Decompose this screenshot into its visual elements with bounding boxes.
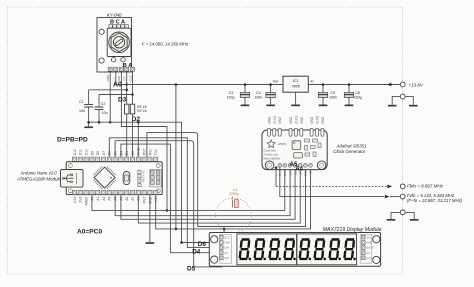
svg-text:C2: C2: [101, 102, 106, 106]
capacitor C2 10n: [95, 95, 104, 123]
Arduino MCU ATmega328P (diamond): [93, 166, 116, 189]
svg-text:CLK: CLK: [366, 257, 371, 260]
svg-text:A7: A7: [131, 196, 135, 200]
7805 ground pin: [295, 92, 297, 104]
svg-text:In: In: [311, 80, 314, 84]
svg-text:Adafruit Si5351: Adafruit Si5351: [336, 143, 368, 148]
svg-text:CS: CS: [224, 252, 228, 255]
resistor R2 1k: [130, 104, 134, 114]
connector +13.8V: [400, 82, 405, 87]
Arduino SMD parts column: [138, 170, 146, 187]
svg-text:SDA: SDA: [288, 170, 292, 176]
svg-text:CLK2: CLK2: [273, 116, 277, 124]
ground symbol below Arduino: [146, 242, 155, 244]
svg-text:AREF: AREF: [85, 197, 89, 206]
svg-text:GND: GND: [366, 242, 372, 245]
svg-text:TX: TX: [143, 175, 146, 178]
power ground connector: [388, 94, 418, 106]
bus A4 SDA line: [115, 167, 290, 216]
voltage regulator IC1 7805: [283, 76, 308, 92]
si5351 IC chip: [292, 141, 301, 150]
wire encoder + pin down to 5V rail: [115, 71, 117, 84]
svg-text:GND: GND: [106, 74, 110, 82]
capacitor C3 100u: [240, 85, 249, 107]
encoder legs: [111, 58, 115, 62]
output ground connector: [387, 210, 419, 221]
wire BFO dashed line: [276, 185, 387, 187]
svg-text:A2: A2: [102, 196, 106, 200]
Adafruit Si5351 board outline: [262, 130, 327, 170]
svg-text:CLK0: CLK0: [316, 116, 320, 124]
wire encoder SW pin down (A0 net): [121, 71, 167, 210]
svg-text:VCC: VCC: [224, 236, 229, 239]
wire D5 to display CLK: [115, 141, 222, 267]
resistor R1 1k: [125, 104, 129, 114]
svg-text:DOUT: DOUT: [366, 247, 374, 250]
ground symbol below C1: [88, 122, 90, 126]
svg-text:KY-040: KY-040: [107, 12, 122, 17]
svg-text:CS: CS: [366, 252, 370, 255]
svg-text:D10: D10: [85, 149, 89, 155]
svg-text:GND: GND: [289, 116, 293, 124]
svg-text:CLK1: CLK1: [294, 116, 298, 124]
wire C1 to DT line: [89, 89, 127, 91]
svg-text:VIN: VIN: [309, 170, 313, 175]
svg-text:Fbfo = 8.867 MHz: Fbfo = 8.867 MHz: [407, 183, 444, 188]
display digit group 2: [297, 234, 357, 265]
display right pin header: [360, 235, 374, 264]
bus VCC display line: [156, 167, 311, 229]
arrow on 13.8V input: [387, 83, 392, 87]
arrow BFO: [387, 185, 392, 189]
svg-text:10n: 10n: [79, 109, 85, 113]
dashed suggestion circle: [216, 198, 252, 233]
svg-text:GND: GND: [321, 116, 325, 124]
si5351 bottom pad labels: [278, 169, 313, 177]
Arduino top pin pads: [72, 157, 157, 161]
svg-text:C3: C3: [229, 91, 234, 95]
Arduino Nano board outline: [66, 162, 162, 195]
svg-text:MAX7219 Display Module: MAX7219 Display Module: [323, 227, 382, 233]
wire BFO stub: [275, 168, 277, 187]
bus L5 line: [198, 167, 306, 227]
wire encoder GND pin down to ground bus: [109, 71, 111, 122]
Arduino top pin labels: [73, 147, 158, 155]
capacitor C1 10n: [84, 90, 93, 123]
svg-text:si5351: si5351: [278, 142, 287, 146]
node VCC drop display left: [223, 228, 226, 231]
svg-text:D4: D4: [192, 248, 201, 255]
wire 5V drop to bus: [175, 85, 177, 229]
node BFO tap: [275, 166, 278, 169]
svg-text:Clock Generator: Clock Generator: [333, 149, 366, 154]
svg-text:D7: D7: [102, 151, 106, 155]
svg-text:Clock Gen: Clock Gen: [264, 148, 277, 152]
arrow VFO: [385, 195, 390, 199]
node junction SW / A0 bus: [166, 209, 169, 212]
display mounting holes: [211, 236, 218, 243]
Arduino bottom pin labels: [73, 196, 158, 206]
svg-text:ATMEGA328P Module: ATMEGA328P Module: [16, 176, 61, 181]
svg-text:10n: 10n: [102, 111, 108, 115]
rotary encoder KY-040 module: [97, 18, 132, 72]
node GND / display: [180, 241, 183, 244]
svg-text:A6: A6: [125, 196, 129, 200]
connector Fbfo: [400, 184, 405, 189]
MAX7219 display board: [209, 233, 380, 267]
node CLK / C2 line: [131, 93, 134, 96]
encoder pin labels GND + SW DT CLK: [106, 74, 132, 82]
svg-text:IC1: IC1: [293, 79, 299, 83]
Arduino ICSP header: [150, 170, 161, 187]
svg-text:100n: 100n: [254, 95, 262, 99]
wire encoder DT pin down to R1: [126, 71, 128, 104]
wire R1 to Arduino D3: [126, 114, 128, 157]
svg-text:D13: D13: [73, 197, 77, 203]
svg-text:D3: D3: [125, 151, 129, 155]
wire VCC to display pin: [223, 229, 225, 236]
svg-text:DT: DT: [123, 76, 127, 80]
si5351 top slot labels: [267, 116, 325, 124]
svg-text:GND: GND: [300, 116, 304, 124]
connector Fvfo: [400, 194, 405, 199]
svg-text:GND: GND: [304, 169, 308, 177]
svg-text:SW: SW: [117, 76, 121, 81]
schematic dashed page border: [8, 7, 403, 274]
svg-text:8kHz-160MHz: 8kHz-160MHz: [264, 156, 281, 160]
svg-text:7805: 7805: [291, 85, 300, 89]
svg-text:CLK: CLK: [224, 257, 229, 260]
node junction encoder GND / ground bus: [109, 121, 112, 124]
svg-text:R2 1k: R2 1k: [137, 109, 147, 113]
wire GND bus to display: [137, 122, 139, 157]
svg-text:C4: C4: [256, 91, 261, 95]
7-segment digits 8.8.8.8.8.8.8.8.: [238, 238, 358, 260]
svg-text:D8: D8: [96, 151, 100, 155]
svg-text:GND: GND: [283, 169, 287, 177]
display digit group 1: [237, 234, 297, 265]
node DT / C1 line: [125, 89, 128, 92]
svg-text:RST: RST: [143, 197, 147, 204]
capacitor C6 100u: [344, 85, 353, 107]
svg-text:C1: C1: [79, 100, 84, 104]
encoder bottom pin pads: [108, 67, 134, 71]
svg-text:RX: RX: [143, 170, 146, 174]
svg-text:GND: GND: [224, 242, 230, 245]
bus A0 line: [92, 167, 285, 211]
node DT / 5V rail: [125, 83, 128, 86]
svg-text:A1: A1: [96, 196, 100, 200]
wire D6 to display DIN: [109, 138, 219, 248]
svg-text:DIN: DIN: [224, 247, 229, 250]
svg-text:CLK: CLK: [128, 76, 132, 82]
svg-text:D9: D9: [90, 151, 94, 155]
bus 5V line: [138, 167, 300, 224]
svg-text:Arduino Nano v3.0: Arduino Nano v3.0: [20, 171, 58, 176]
encoder knob: [107, 28, 131, 56]
si5351 bottom pads: [278, 164, 312, 168]
wire C2 to CLK line: [99, 94, 133, 96]
svg-text:A0=PC0: A0=PC0: [77, 229, 102, 236]
wire D4 to display CS: [121, 144, 220, 253]
Arduino crystal: [123, 171, 130, 184]
13.8V rail: [308, 84, 400, 86]
si5351 xtal: [294, 153, 303, 159]
node C2 ground: [98, 121, 101, 124]
svg-text:F = 14.000, 14.350 MHz: F = 14.000, 14.350 MHz: [142, 41, 189, 46]
si5351 top clk slots: [267, 128, 324, 136]
svg-text:100µ: 100µ: [354, 95, 362, 99]
display left pin header: [220, 235, 232, 264]
wire RX0 to bus L5: [147, 133, 198, 227]
svg-text:3V3: 3V3: [79, 196, 83, 202]
svg-text:D3: D3: [118, 97, 127, 104]
capacitor Cx 2200u (suggested): [233, 197, 239, 208]
svg-text:(F+fo = 22.867, 23.217 MHz): (F+fo = 22.867, 23.217 MHz): [407, 198, 463, 203]
svg-text:R1 1k: R1 1k: [137, 105, 147, 109]
svg-text:25 MHz Xtal: 25 MHz Xtal: [263, 152, 279, 156]
svg-text:TX1: TX1: [154, 149, 158, 155]
svg-text:A3: A3: [108, 196, 112, 200]
svg-text:100µ: 100µ: [227, 95, 235, 99]
svg-text:RST: RST: [143, 149, 147, 156]
svg-text:D=PB=PD: D=PB=PD: [57, 137, 88, 144]
Arduino corner holes: [68, 164, 72, 168]
svg-text:100n: 100n: [329, 95, 337, 99]
svg-text:GND: GND: [310, 116, 314, 124]
encoder mounting holes: [99, 29, 104, 34]
si5351 passives: [305, 139, 322, 157]
si5351 silk text: [263, 142, 287, 160]
svg-text:D11: D11: [79, 149, 83, 155]
svg-text:C6: C6: [355, 91, 360, 95]
svg-text:D5: D5: [187, 265, 196, 272]
svg-text:A4: A4: [295, 166, 303, 173]
svg-text:D6: D6: [198, 241, 207, 248]
encoder header pads B C A: [109, 20, 128, 28]
svg-text:GND: GND: [278, 116, 282, 124]
svg-text:VCC: VCC: [366, 236, 371, 239]
svg-text:GND: GND: [267, 116, 271, 124]
+5V rail: [116, 84, 283, 86]
svg-text:D2: D2: [131, 151, 135, 155]
capacitor C4 100n: [266, 85, 275, 107]
bus A5 SCL line: [121, 167, 295, 220]
Arduino GND to ground: [149, 195, 151, 243]
si5351 mounting holes: [265, 161, 274, 170]
Arduino USB connector: [61, 170, 84, 188]
svg-text:C5: C5: [330, 91, 335, 95]
si5351 logo star: [267, 140, 275, 148]
svg-text:D12: D12: [73, 149, 77, 155]
svg-text:Out: Out: [273, 80, 279, 84]
svg-text:2200µ: 2200µ: [228, 192, 239, 196]
wire encoder CLK pin down to R2: [132, 71, 134, 104]
capacitor C5 100n: [318, 85, 327, 107]
Arduino bottom pin pads: [72, 190, 157, 194]
node 5V drop: [175, 83, 178, 86]
svg-text:RX0: RX0: [148, 149, 152, 156]
ground bus C1 C2 encoder: [89, 121, 182, 123]
wire R2 to Arduino D2: [132, 114, 134, 157]
svg-text:+: +: [112, 78, 116, 80]
wire VFO from si5351 pad: [280, 167, 384, 197]
svg-text:+13.8V: +13.8V: [409, 82, 424, 87]
